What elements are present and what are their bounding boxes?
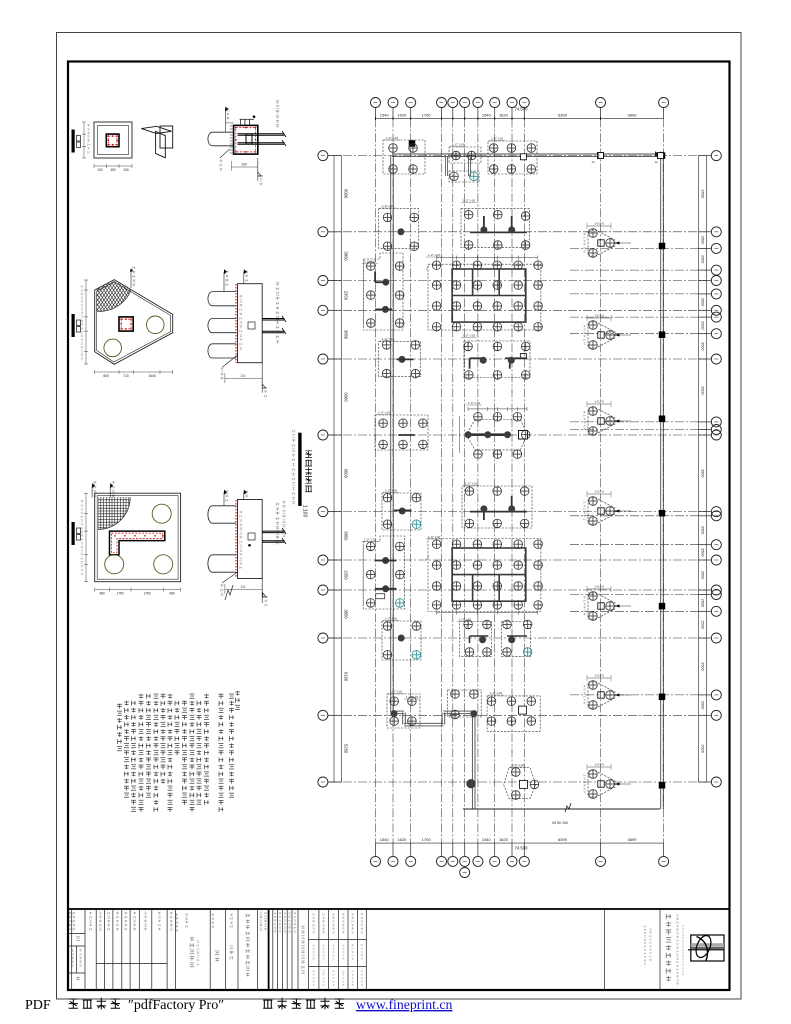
svg-text:1540: 1540 [482,837,492,842]
detail A dims [83,122,85,158]
bottom right tri [588,771,615,797]
svg-text:2500: 2500 [701,744,705,752]
svg-text:480: 480 [99,592,105,596]
svg-text:1-17 1-18: 1-17 1-18 [385,617,397,621]
row2 left cap [379,209,419,249]
row10 right tri [588,593,615,619]
detail F right note col [276,503,279,506]
row6 left cap [375,415,428,450]
detail F callouts [224,490,227,495]
svg-text:1-17 1-18: 1-17 1-18 [364,538,376,542]
left dimension chain [333,156,335,782]
svg-text:2500: 2500 [701,662,705,670]
detail A: column base plan [94,122,132,158]
svg-text:www.fineprint.cn: www.fineprint.cn [356,997,453,1012]
svg-text:1-17 1-18: 1-17 1-18 [428,535,440,539]
detail B leader JL [220,149,230,158]
svg-text:2500: 2500 [701,236,705,244]
detail C: pentagon pile cap plan [95,280,173,365]
detail B stirrup ticks [230,122,234,124]
svg-text:1-17 1-18: 1-17 1-18 [382,337,394,341]
row6 right tri [588,408,615,434]
detail C dims [85,280,87,364]
design info cols [274,912,276,914]
detail D dims [225,378,262,380]
row11 right tri [588,682,615,708]
svg-text:3899: 3899 [628,113,638,118]
svg-text:6000: 6000 [344,392,349,402]
section mark 1 [72,130,75,153]
svg-text:5250: 5250 [344,744,349,754]
column squares on top wall [409,141,415,147]
svg-text:480: 480 [169,592,175,596]
svg-text:3899: 3899 [628,837,638,842]
right tri rows3-4 [588,322,615,348]
svg-text:200: 200 [242,163,248,167]
svg-text:6000: 6000 [344,469,349,479]
detail D callouts [224,269,227,274]
row7 mid cap [462,486,532,528]
tubie cell [230,913,233,915]
column squares on right wall [659,153,665,159]
svg-text:2500: 2500 [701,548,705,556]
svg-text:710: 710 [123,374,129,378]
svg-text:74.500: 74.500 [515,846,528,851]
note near detail F right [282,501,285,504]
company logo [691,935,724,961]
baseline at bottom annex [463,808,660,810]
detail F leader [222,572,238,583]
svg-text:1-17 1-18: 1-17 1-18 [382,204,394,208]
leader ticks near caps [426,266,429,270]
svg-text:2500: 2500 [701,526,705,534]
detail B dims [231,166,257,168]
svg-text:100: 100 [97,168,103,172]
svg-text:2500: 2500 [701,255,705,263]
wall: lower-left vertical [471,712,473,809]
squiggle break [225,585,233,600]
row2 middle cap [461,208,529,247]
svg-text:12: 12 [654,160,658,164]
big raft cap 2 [428,539,541,612]
bottom grid bubbles [375,843,377,856]
svg-text:1-0 2-0: 1-0 2-0 [594,222,604,226]
svg-text:3850: 3850 [344,330,349,340]
detail D: 3-pile section [208,292,213,306]
svg-text:1-0 2-0: 1-0 2-0 [594,490,604,494]
svg-text:2500: 2500 [701,298,705,306]
svg-text:3850: 3850 [344,531,349,541]
detail E L-wall [110,531,165,555]
svg-text:1:100: 1:100 [302,505,308,518]
svg-text:2350: 2350 [344,291,349,301]
svg-text:1-17 1-18: 1-17 1-18 [386,136,398,140]
svg-text:1-17 1-18: 1-17 1-18 [428,253,440,257]
svg-text:1750: 1750 [116,592,123,596]
svg-text:6399: 6399 [558,113,568,118]
svg-text:1540: 1540 [380,837,390,842]
detail D bars [262,318,284,320]
company name col [666,914,671,919]
row10 left cap [382,621,421,660]
title block frame [68,909,730,990]
pile cap A-top-2 [449,147,481,163]
svg-text:1-17 1-18: 1-17 1-18 [491,137,503,141]
note line left of title [292,430,295,433]
row2 right tri-cluster [588,230,615,256]
svg-text:650: 650 [103,374,109,378]
svg-text:1-17 1-18: 1-17 1-18 [512,763,524,767]
section mark 2 [72,314,75,337]
horizontal main grid axes (dash-dot) [328,155,706,157]
svg-text:6000: 6000 [344,189,349,199]
detail D leader [222,355,238,368]
title block verticals [71,909,73,990]
svg-text:1620: 1620 [499,113,509,118]
svg-text:6399: 6399 [558,837,568,842]
svg-text:1700: 1700 [422,837,432,842]
right-wing sub axes (dash-dot) [570,247,706,249]
svg-text:1540: 1540 [482,113,492,118]
svg-text:450: 450 [110,168,116,172]
svg-text:″pdfFactory Pro″: ″pdfFactory Pro″ [128,998,224,1013]
svg-text:1-17 1-18: 1-17 1-18 [463,334,475,338]
wall: bottom-left steps [392,710,404,712]
svg-text:2500: 2500 [701,342,705,350]
detail B elevation flag [257,158,259,181]
inner thick border [68,62,730,991]
thick divider [268,909,270,990]
detail C piles [147,316,165,334]
svg-text:12: 12 [591,160,595,164]
detail C column [119,317,133,331]
doorway stubs below axis1 [444,157,446,176]
svg-text:PDF: PDF [25,998,51,1013]
svg-text:74.500: 74.500 [515,107,528,112]
row11 mid cap [487,696,540,731]
detail C callout [130,268,133,272]
svg-text:1-17 1-18: 1-17 1-18 [468,401,480,405]
plan title text [305,451,312,458]
pile cap A-top-left [383,140,425,174]
svg-text:1620: 1620 [397,113,407,118]
svg-text:2-0: 2-0 [241,374,246,378]
wall: top facade [392,153,663,155]
jieshi cell [215,951,220,955]
svg-text:1-17 1-18: 1-17 1-18 [463,199,475,203]
svg-text:1-0 2-0: 1-0 2-0 [594,314,604,318]
detail F: 2-pile section [208,506,213,523]
certificate text [644,925,646,927]
detail E dims [85,493,87,582]
row11 left cap + wall steps [387,694,420,728]
detail B callout [225,107,228,112]
svg-text:1-17 1-18: 1-17 1-18 [459,618,471,622]
left stepped cluster rows 8-9 [363,536,405,609]
extra bottom bubble [460,868,470,878]
3D fold symbol [160,126,173,148]
row7 left cap [382,493,421,530]
svg-text:3850: 3850 [344,251,349,261]
svg-text:1700: 1700 [422,113,432,118]
3-row grid lines [309,939,367,941]
svg-text:2500: 2500 [701,189,705,197]
svg-text:2500: 2500 [701,599,705,607]
wall-bend cluster [448,690,482,717]
drawing title cell [190,937,194,941]
svg-text:3850: 3850 [344,609,349,619]
bottom hex cap [504,768,536,799]
title block small header texts [69,912,72,914]
section mark 3 [72,522,75,545]
detail F elevation [261,579,263,604]
detail B top rebar [240,118,254,120]
right grid bubbles [698,155,711,157]
svg-text:1-17 1-18: 1-17 1-18 [452,143,464,147]
svg-text:1-0 2-0: 1-0 2-0 [594,674,604,678]
small grid cell texts [313,913,315,915]
svg-text:1-17 1-18: 1-17 1-18 [385,489,397,493]
top dimension line [376,117,664,119]
svg-text:1-17 1-18: 1-17 1-18 [390,690,402,694]
detail E piles [105,555,124,574]
detail E callouts [92,483,95,488]
svg-text:1-17 1-18: 1-17 1-18 [378,411,390,415]
bottom dimension line [376,842,664,844]
detail D elevation [261,363,263,393]
top grid bubbles [375,108,377,119]
pile cap A-top-3 [488,141,537,174]
vertical grid axes (dash-dot) [375,118,377,843]
svg-text:2500: 2500 [701,620,705,628]
row5 mid cap [464,341,530,378]
svg-text:1-17 1-18: 1-17 1-18 [465,482,477,486]
detail B right note [276,101,279,104]
svg-text:1620: 1620 [397,837,407,842]
svg-text:1-17 1-18: 1-17 1-18 [406,695,418,699]
row5 left cap [379,341,421,376]
break mark on baseline [565,803,571,812]
svg-text:2500: 2500 [701,321,705,329]
svg-text:1-0 2-0: 1-0 2-0 [594,585,604,589]
wall: right facade [660,152,662,810]
svg-text:6100: 6100 [344,672,349,682]
notes text block [235,691,240,696]
row6 mid hex cap [467,420,528,450]
detail F dims [225,589,262,591]
svg-text:2350: 2350 [344,570,349,580]
svg-text:05 50 150: 05 50 150 [552,821,568,825]
svg-text:2500: 2500 [701,386,705,394]
svg-text:2500: 2500 [701,701,705,709]
svg-text:1640: 1640 [148,374,155,378]
plan title underline [298,433,301,506]
svg-text:2-0: 2-0 [241,585,246,589]
detail B bars [238,133,285,135]
row10 mid cap A [459,622,491,657]
svg-text:100: 100 [123,168,129,172]
svg-text:1750: 1750 [143,592,150,596]
left mini table [68,933,85,935]
project name col [246,914,250,918]
svg-text:1-17 1-18: 1-17 1-18 [490,691,502,695]
row7 right tri [588,498,615,524]
header horizontal under narrow cols [96,962,167,964]
left L cluster rows3-4 [363,253,403,330]
svg-text:1-0 2-0: 1-0 2-0 [594,400,604,404]
row10 mid cap B [502,622,531,657]
right dimension chain [697,156,699,782]
svg-text:2500: 2500 [701,469,705,477]
svg-text:2500: 2500 [701,571,705,579]
big raft cap 1 [428,264,541,330]
svg-text:1-0 2-0: 1-0 2-0 [594,763,604,767]
detail B: pile-cap section [208,132,213,146]
svg-text:1540: 1540 [380,113,390,118]
detail D right note col [276,283,279,286]
svg-text:1620: 1620 [499,837,509,842]
detail F bars [262,530,284,532]
svg-text:1-17 1-18: 1-17 1-18 [364,260,376,264]
detail E: big square pile cap plan [95,493,181,582]
wall: left facade [390,155,392,712]
left grid bubbles [328,155,342,157]
